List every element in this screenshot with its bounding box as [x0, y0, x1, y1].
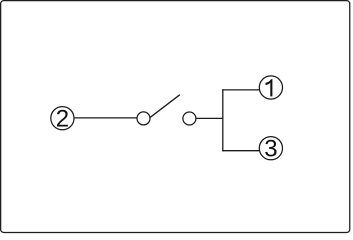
svg-text:2: 2	[56, 106, 69, 133]
svg-text:3: 3	[264, 136, 277, 163]
vertical junction wire joining branches	[222, 89, 224, 151]
fixed contact circle	[183, 112, 196, 125]
wire from terminal 2 to movable contact	[74, 117, 136, 119]
terminal 1 circle	[259, 76, 282, 99]
movable contact circle (common pole)	[137, 112, 150, 125]
terminal 2 circle	[51, 107, 74, 130]
pin number 3	[264, 136, 277, 163]
wire from fixed contact to junction	[196, 117, 223, 119]
wire to terminal 1 (top branch)	[222, 89, 259, 91]
pin number 1	[266, 79, 273, 96]
pin number 2	[56, 106, 69, 133]
wire to terminal 3 (bottom branch)	[222, 150, 259, 152]
switch lever arm	[150, 95, 180, 118]
terminal 3 circle	[259, 137, 282, 160]
